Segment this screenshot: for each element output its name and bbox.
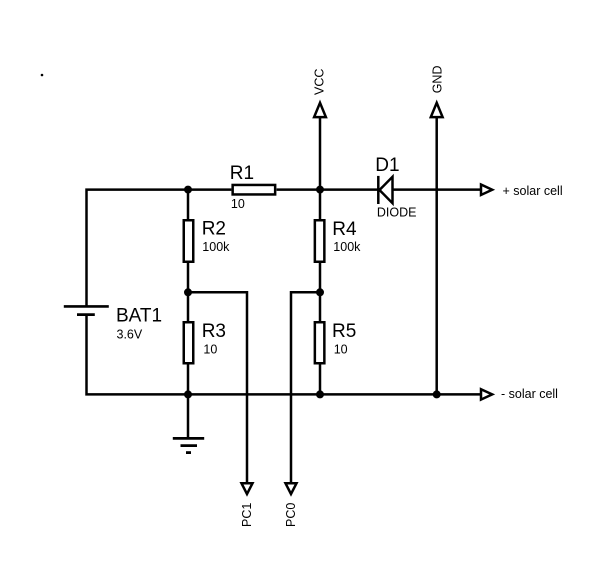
svg-text:GND: GND: [430, 66, 444, 94]
svg-text:PC1: PC1: [240, 503, 254, 527]
wire top rail middle segment: [277, 188, 378, 191]
resistor R2: [184, 219, 230, 262]
wire R3 column below R3: [187, 364, 190, 395]
svg-text:R1: R1: [230, 163, 254, 184]
wire VCC column below R5: [319, 364, 322, 395]
svg-text:- solar cell: - solar cell: [501, 387, 558, 401]
svg-text:R5: R5: [332, 321, 356, 342]
wire R2 column upper: [187, 190, 190, 220]
pin - solar cell: [481, 387, 558, 401]
node junction between R4 and R5: [316, 288, 324, 296]
svg-text:R4: R4: [332, 219, 357, 240]
wire top rail to left rail upper (corner): [87, 190, 232, 307]
svg-text:R3: R3: [202, 321, 226, 342]
GND supply symbol: [430, 66, 444, 118]
resistor R3: [184, 321, 226, 363]
svg-text:3.6V: 3.6V: [117, 328, 143, 342]
svg-text:10: 10: [231, 197, 245, 211]
node junction at R2 top: [184, 186, 192, 194]
node junction between R2 and R3: [184, 288, 192, 296]
wire PC1 branch (corner): [188, 292, 247, 483]
pin + solar cell: [481, 184, 563, 198]
svg-text:PC0: PC0: [284, 503, 298, 527]
node junction at R3 bottom: [184, 390, 192, 398]
VCC supply symbol: [313, 69, 327, 118]
svg-text:R2: R2: [202, 219, 226, 240]
battery BAT1: [64, 306, 162, 342]
svg-text:VCC: VCC: [313, 69, 327, 95]
pin PC0: [284, 483, 298, 527]
svg-text:BAT1: BAT1: [116, 306, 162, 327]
wire GND column: [435, 117, 438, 394]
resistor R5: [315, 321, 356, 363]
wire VCC column upper: [319, 117, 322, 220]
ground: [173, 394, 204, 452]
svg-text:100k: 100k: [333, 240, 361, 254]
diode D1: [375, 155, 416, 219]
node junction at GND bottom: [433, 390, 441, 398]
svg-text:+ solar cell: + solar cell: [503, 184, 563, 198]
resistor R4: [315, 219, 361, 262]
svg-text:100k: 100k: [202, 240, 230, 254]
svg-text:D1: D1: [375, 155, 399, 176]
node junction at R4 top: [316, 186, 324, 194]
svg-text:10: 10: [334, 343, 348, 357]
wire left rail lower to bottom rail (corner): [87, 315, 481, 395]
resistor R1: [230, 163, 275, 211]
stray dot: [41, 74, 44, 77]
svg-text:10: 10: [203, 343, 217, 357]
wire VCC column between R4 and R5: [319, 263, 322, 322]
node junction at R5 bottom: [316, 390, 324, 398]
svg-text:DIODE: DIODE: [377, 205, 417, 219]
wire top rail right segment: [393, 188, 481, 191]
wire PC0 branch (corner): [291, 292, 320, 483]
wire R2 column between R2 and R3: [187, 263, 190, 322]
pin PC1: [240, 483, 254, 527]
